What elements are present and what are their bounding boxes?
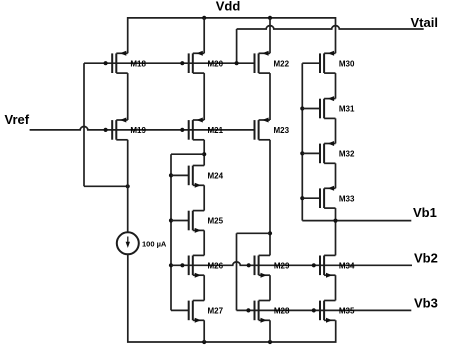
wire M28 source to rail [269,320,271,342]
junction bus-M25 gate [169,218,173,222]
wire M30 drain to M31 source [335,73,337,99]
transistor M29 [255,255,271,277]
svg-text:M28: M28 [274,307,290,316]
junction rail-M28 [268,340,272,344]
wire M23 drain tap horizontal [237,232,271,234]
svg-text:M24: M24 [208,172,224,181]
transistor M30 [320,51,336,73]
junction bus-M31 gate [300,106,304,110]
wire M33 gate stub [302,197,320,199]
wire M23 drain to M29 drain [269,140,271,256]
wire M20 drain to M21 source [203,73,205,120]
transistor M18 [112,51,128,73]
wire M33 drain to Vb1 [335,208,337,221]
junction dot M29 gate [247,263,251,267]
wire M18 gate feedback vertical [83,63,85,186]
junction Vb1 node [333,219,337,223]
transistor M23 [255,118,271,140]
wire M21 drain to M24 drain [203,140,205,166]
junction M19 source node [126,184,130,188]
junction bus-M26 gate [169,263,173,267]
wire Vb3 row [237,309,412,311]
junction bus-M33 gate [300,196,304,200]
wire M18 drain to M19 source [127,73,129,120]
junction Vtail-gate row [235,61,239,65]
transistor M33 [320,186,336,208]
wire M32 gate stub [302,152,320,154]
wire PMOS gate bus D vertical [301,63,303,220]
junction dot M28 gate [246,308,250,312]
transistor M32 [320,141,336,163]
wire M22 drain to M23 source [269,73,271,120]
junction M24 drain-gate bus [202,152,206,156]
transistor M28 [255,301,271,323]
wire M25 gate stub [171,220,189,222]
wire M27 source to rail [203,320,205,342]
wire M31 gate stub [302,108,320,110]
wire M24 gate stub [171,174,189,176]
wire Vtail drop to gate row [236,29,238,63]
svg-text:Vdd: Vdd [216,0,241,14]
wire gate row M18 M20 M22 [84,62,255,64]
svg-text:M19: M19 [130,126,146,135]
svg-text:100 µA: 100 µA [142,239,167,248]
wire Vb1 to M34 drain [335,221,337,256]
wire M25 source to M26 drain [203,230,205,255]
wire M27 gate stub [171,309,189,311]
svg-text:M31: M31 [339,105,355,114]
wire M30 gate stub [302,62,320,64]
wire M23 drain to M28 gate vertical [236,233,238,310]
transistor M22 [255,51,271,73]
svg-text:M23: M23 [274,126,290,135]
wire M18 gate feedback horizontal [84,185,128,187]
transistor M34 [320,255,336,277]
svg-text:M32: M32 [339,150,355,159]
svg-text:M21: M21 [208,126,224,135]
transistor M21 [189,118,205,140]
svg-text:M35: M35 [339,307,355,316]
junction dot M34 gate [312,263,316,267]
wire M22 source to Vdd [269,18,271,53]
transistor M24 [189,166,205,188]
junction dot M26 gate [180,263,184,267]
wire M26 source to M27 drain [203,275,205,300]
wire M34 source to M35 drain [335,275,337,300]
svg-text:Vb3: Vb3 [414,295,438,310]
wire M24 gate bus top [171,153,204,155]
junction bus-M32 gate [300,151,304,155]
transistor M26 [189,255,205,277]
junction Vdd-M22 [268,16,272,20]
svg-text:Vref: Vref [5,112,30,127]
junction M23 drain tap [268,231,272,235]
transistor M27 [189,301,205,323]
junction dot M35 gate [312,308,316,312]
svg-text:M33: M33 [339,194,355,203]
junction dot M20 gate [180,61,184,65]
wire Vref / gate row M19 M21 M23 [30,126,255,129]
svg-text:M18: M18 [130,59,146,68]
wire NMOS gate bus B vertical [170,154,172,310]
svg-text:Vtail: Vtail [411,15,438,30]
svg-text:M25: M25 [208,217,224,226]
junction Vdd-M20 [202,16,206,20]
transistor M31 [320,96,336,118]
junction dot M19 gate [104,128,108,132]
transistor M25 [189,211,205,233]
svg-text:M20: M20 [208,59,224,68]
svg-text:M30: M30 [339,59,355,68]
svg-text:M34: M34 [339,261,355,270]
junction dot M18 gate [104,61,108,65]
wire M31 drain to M32 source [335,118,337,143]
wire M24 source to M25 drain [203,185,205,210]
wire Vb2 row [171,262,412,265]
wire M32 drain to M33 source [335,163,337,188]
wire Vb1 [302,220,411,222]
wire current source to ground rail and rail to M35 [128,254,336,342]
transistor M20 [189,51,205,73]
svg-text:M22: M22 [274,59,290,68]
current source I1 100uA [117,232,139,254]
svg-text:M26: M26 [208,261,224,270]
wire M29 source to M28 drain [269,275,271,300]
wire Vdd rail with drops to M18 and M30 [128,18,336,53]
junction rail-M27 [202,340,206,344]
svg-text:M27: M27 [208,307,224,316]
wire M20 source to Vdd [203,18,205,53]
transistor M19 [112,118,128,140]
svg-text:Vb1: Vb1 [413,205,437,220]
transistor M35 [320,301,336,323]
wire M19 drain to current source [127,140,129,233]
svg-text:Vb2: Vb2 [414,251,438,266]
wire Vtail [237,26,424,29]
junction bus-M24 gate [169,173,173,177]
svg-text:M29: M29 [274,261,290,270]
junction dot M21 gate [180,128,184,132]
